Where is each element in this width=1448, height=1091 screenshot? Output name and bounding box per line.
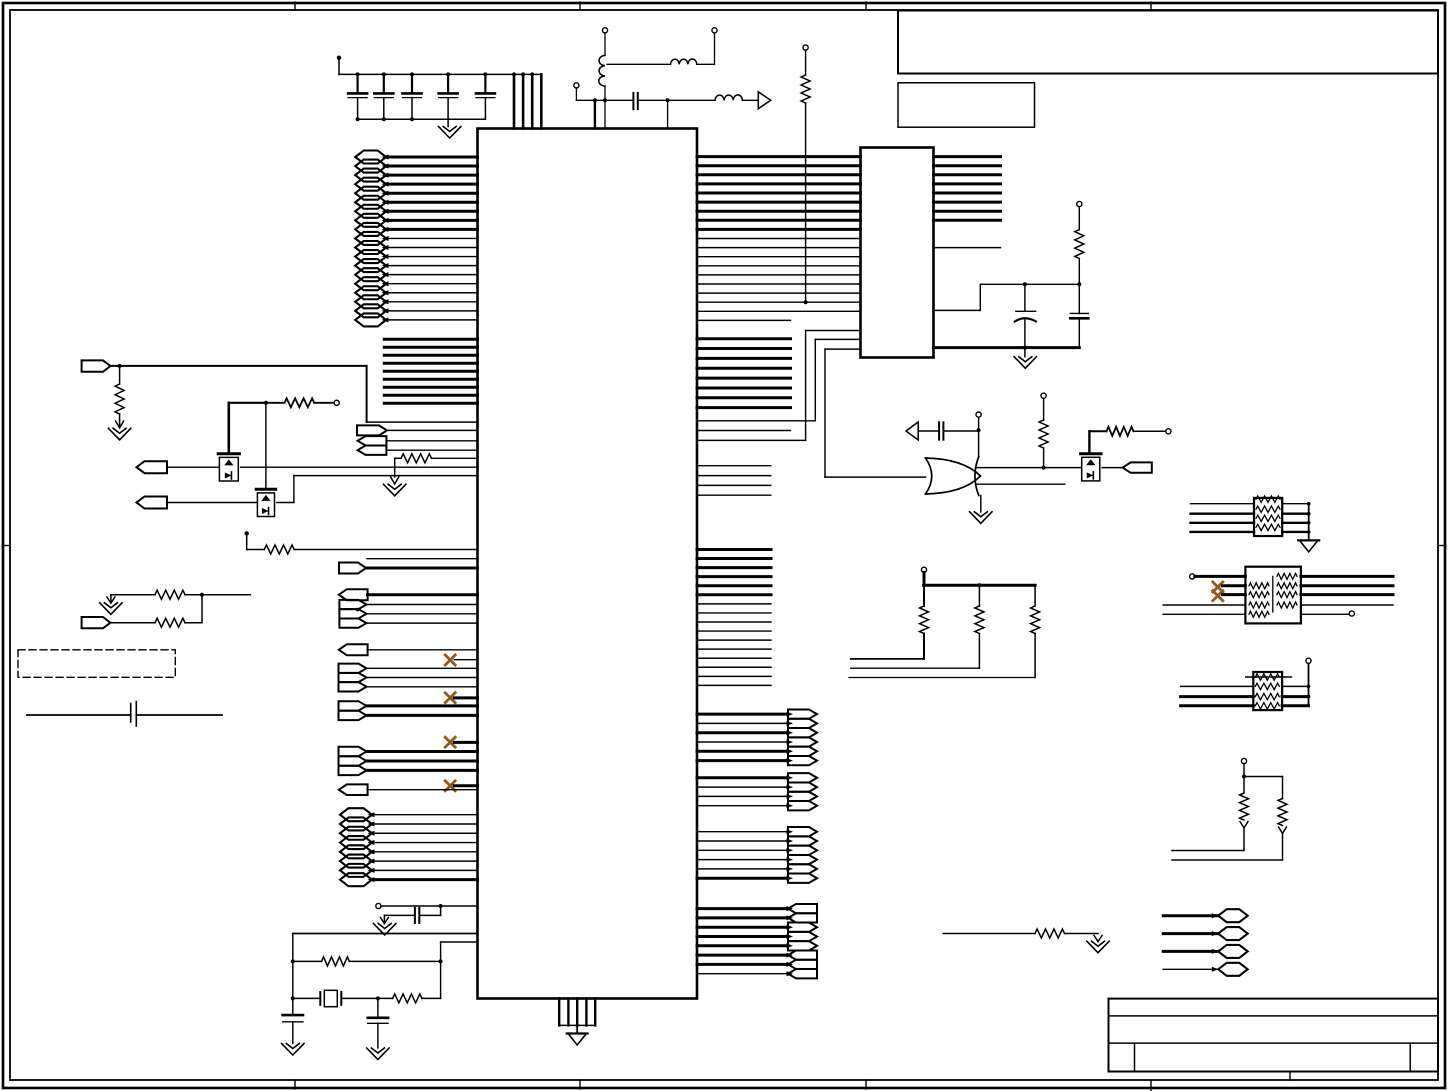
capacitor C4 decoupling: [439, 74, 458, 119]
no-connect X5: [1213, 582, 1223, 592]
wire stub row b0: [697, 319, 791, 321]
inductor L3: [715, 95, 758, 100]
capacitor C9 load: [368, 998, 388, 1048]
bidirectional flags group G4: [697, 904, 817, 978]
wire U3 output: [977, 466, 1081, 470]
no-connect X3: [445, 737, 477, 747]
resistor pack RN1: [1254, 496, 1282, 536]
IC U2 memory: [861, 148, 934, 358]
revision box: [898, 83, 1035, 127]
ground C8: [282, 1044, 304, 1056]
wire RF line: [576, 98, 633, 102]
ground R2: [384, 477, 406, 496]
ground R1: [108, 421, 130, 440]
resistor R7 pullup: [801, 50, 810, 302]
wire C12 to gate: [978, 430, 980, 457]
wire Q1 source: [167, 466, 219, 468]
ground U1: [567, 1025, 588, 1045]
terminal node T12: [1306, 658, 1311, 663]
capacitor C8 load: [283, 1015, 303, 1043]
wire U1 to U2 link 2: [697, 331, 861, 441]
output flags F8 F9 F10 chained: [339, 600, 477, 628]
wire stub row: [367, 558, 478, 560]
wire U2 ground rail: [934, 346, 1080, 350]
resistor R15: [1172, 777, 1287, 861]
resistor R10 gate: [1089, 427, 1165, 454]
wire bus RN1 right: [1282, 502, 1310, 541]
input port flag P2: [82, 617, 111, 628]
title block bottom-right: [1109, 999, 1439, 1072]
ground divider: [100, 595, 122, 615]
ground cap bank: [439, 119, 461, 138]
wire bus U2 right: [934, 157, 1001, 248]
ground R16: [1087, 936, 1109, 953]
dashed box note area: [18, 650, 175, 678]
transistor Q3: [1081, 454, 1102, 481]
ground U2 rail: [1014, 348, 1036, 369]
wire U2 step: [934, 282, 1082, 310]
wire bus data stubs right: [697, 339, 791, 408]
antenna arrow symbol: [758, 92, 771, 109]
wire RN3 row1: [1246, 676, 1292, 678]
wire ground rail below caps: [356, 117, 486, 121]
transistor Q1: [218, 454, 239, 481]
capacitor C10 polarized: [1015, 284, 1036, 347]
terminal node T8: [1166, 429, 1171, 434]
wire Q2 source: [167, 502, 257, 504]
wire net stub r3: [849, 677, 1035, 679]
terminal node T10: [1190, 574, 1195, 579]
wire bus RN3 right: [1282, 663, 1310, 705]
input flag F11: [339, 644, 478, 655]
output flag F6: [339, 563, 478, 574]
wire U1 clock pin: [594, 100, 596, 128]
wire stub below output: [977, 483, 1065, 485]
wire U2 to gate: [825, 349, 926, 477]
capacitor C3 decoupling: [403, 74, 422, 119]
resistor R4 series: [245, 531, 478, 554]
inductor L1: [599, 55, 605, 128]
terminal node T11: [1349, 611, 1354, 616]
output flags group G1: [697, 709, 817, 765]
terminal node T5: [376, 903, 381, 908]
input flag F20: [339, 784, 478, 795]
ground RN1: [1298, 540, 1319, 552]
wire Q1 gate: [228, 403, 231, 454]
wire L1 tap: [607, 63, 671, 65]
resistor network R11 R12 R13: [920, 572, 1040, 677]
resistor pack RN2: [1245, 567, 1301, 624]
capacitor C11: [1070, 284, 1088, 347]
wire bus RN2 left: [1163, 576, 1245, 614]
output flag F4: [137, 461, 168, 473]
ground C9: [367, 1048, 389, 1060]
wire bus control stubs: [697, 550, 771, 686]
wire bus right stubs low: [697, 466, 771, 496]
terminal node T3: [574, 83, 579, 101]
terminal node T1: [602, 28, 607, 56]
wire P1 net: [110, 364, 477, 422]
resistor pack RN3: [1253, 672, 1282, 710]
capacitor C12 with arrow: [906, 422, 981, 440]
no-connect X6: [1213, 591, 1223, 601]
input flags F2 F3: [358, 436, 478, 455]
input flag F7: [339, 589, 478, 600]
resistor R14: [1172, 764, 1249, 851]
output flags F12-F14 chained: [339, 664, 478, 692]
connector J1 data bus pins: [355, 151, 386, 327]
wire bus RN2 right: [1301, 576, 1393, 614]
ground U3: [970, 496, 992, 524]
resistor R2: [395, 454, 478, 477]
capacitor C6 series: [633, 93, 637, 109]
no-connect X4: [445, 781, 477, 791]
terminal node T9: [921, 567, 926, 572]
wire net stub r1: [851, 658, 924, 660]
IC U1 main processor: [478, 129, 698, 999]
output flags group G2: [697, 773, 817, 810]
wire Q2 drain to U1: [277, 476, 478, 503]
output flag F21: [1123, 462, 1152, 472]
terminal node T2: [697, 28, 717, 65]
transistor Q2: [256, 489, 276, 516]
output flag F5: [137, 497, 168, 509]
resistor R3 gate: [266, 398, 334, 407]
resistor R5 feedback: [291, 957, 443, 966]
inductor L2: [671, 59, 697, 64]
wire bus J1 to U1: [382, 155, 478, 323]
terminal node T7: [976, 412, 981, 428]
wire stub row b1: [697, 430, 791, 432]
wire Q1 drain to U1: [241, 466, 478, 468]
connector J2 pins: [340, 808, 372, 886]
capacitor C2 decoupling: [374, 74, 393, 119]
output flags F15 F16 chained: [339, 701, 478, 720]
wire bus address stubs: [384, 339, 477, 403]
wire net stub r2: [851, 667, 980, 669]
capacitor C1 decoupling: [348, 74, 367, 119]
resistor R18: [110, 595, 202, 628]
wire gate rail: [229, 401, 268, 405]
terminal node T6: [803, 45, 808, 50]
wire bus VDD pins to U1 top: [512, 72, 541, 128]
resistor R1 pulldown: [115, 366, 124, 427]
wire osc rail: [293, 933, 478, 935]
input port flag P1: [82, 360, 111, 371]
capacitor C7 series: [384, 906, 440, 923]
wire osc in: [381, 904, 478, 908]
title header box top-right: [898, 11, 1438, 74]
resistor R6 series osc: [393, 994, 441, 1003]
capacitor C13 series: [27, 702, 222, 727]
resistor R9 pullup: [1039, 393, 1048, 468]
wire U1 to U2 link 1: [697, 339, 861, 420]
capacitor C5 decoupling: [476, 74, 495, 119]
wire bus RN3 left: [1181, 686, 1254, 705]
output flags group G3: [697, 827, 817, 883]
wire bus J2 to U1: [368, 812, 478, 882]
no-connect X2: [445, 693, 477, 703]
gate U3 OR: [926, 457, 981, 496]
resistor R17: [111, 590, 251, 599]
output flag F1: [357, 425, 478, 435]
crystal Y1: [291, 934, 393, 1016]
wire power rail top: [339, 72, 541, 76]
wire bus U1 to U2: [697, 157, 861, 312]
resistor R16: [943, 929, 1098, 938]
wire Q2 gate: [265, 403, 267, 490]
no-connect X1: [445, 655, 477, 665]
ground arrow osc: [374, 915, 396, 935]
wire xtal pin: [441, 942, 478, 998]
output flags F17-F19 chained: [339, 747, 478, 775]
wire Q3 out: [1102, 467, 1122, 469]
net tie diamonds D1-D4: [1163, 909, 1248, 976]
power terminal node VDD: [337, 56, 341, 75]
terminal node T4: [334, 400, 339, 405]
terminal node T13: [1241, 758, 1246, 763]
resistor R8 pullup: [1075, 201, 1084, 284]
wire bus U1 ground pins: [559, 998, 595, 1025]
wire after C6: [638, 98, 715, 128]
wire bus RN1 left: [1191, 504, 1255, 532]
